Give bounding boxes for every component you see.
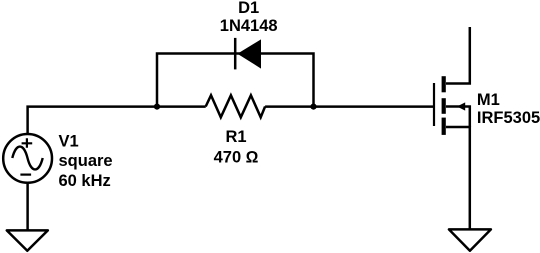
svg-text:IRF5305: IRF5305 [477, 109, 540, 127]
svg-text:1N4148: 1N4148 [220, 17, 278, 35]
svg-text:R1: R1 [225, 128, 246, 146]
svg-text:V1: V1 [59, 132, 79, 150]
svg-text:M1: M1 [477, 91, 500, 109]
svg-text:D1: D1 [238, 0, 259, 17]
svg-text:square: square [59, 152, 113, 170]
svg-text:470 Ω: 470 Ω [214, 149, 259, 167]
svg-text:60 kHz: 60 kHz [59, 172, 111, 190]
